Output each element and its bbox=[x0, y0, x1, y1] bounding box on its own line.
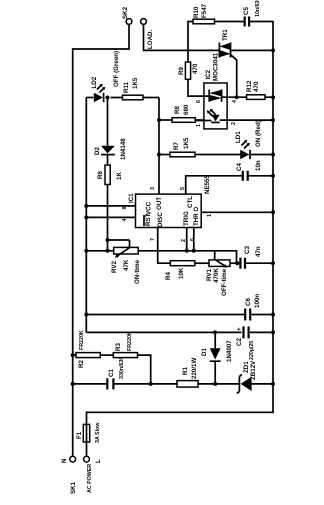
svg-text:FR220K: FR220K bbox=[79, 330, 85, 350]
svg-text:470K: 470K bbox=[213, 268, 220, 283]
svg-text:R9: R9 bbox=[178, 67, 185, 75]
svg-text:C6: C6 bbox=[245, 298, 252, 306]
svg-text:OFF-time: OFF-time bbox=[221, 268, 228, 296]
svg-text:THR O: THR O bbox=[193, 207, 200, 226]
svg-text:470: 470 bbox=[253, 81, 260, 92]
svg-text:C2: C2 bbox=[236, 338, 243, 346]
svg-text:4: 4 bbox=[122, 219, 128, 222]
svg-text:N: N bbox=[61, 458, 68, 463]
svg-text:TR1: TR1 bbox=[222, 29, 229, 41]
svg-text:RST: RST bbox=[145, 213, 152, 226]
svg-text:C3: C3 bbox=[244, 246, 251, 254]
svg-text:D1: D1 bbox=[201, 348, 208, 356]
svg-text:ZB12V: ZB12V bbox=[250, 360, 257, 380]
svg-text:R1: R1 bbox=[182, 367, 189, 375]
svg-text:ZD1: ZD1 bbox=[243, 361, 250, 373]
svg-text:R11: R11 bbox=[123, 81, 130, 93]
svg-text:+: + bbox=[236, 327, 243, 331]
svg-text:RV2: RV2 bbox=[111, 261, 118, 273]
svg-text:C5: C5 bbox=[243, 7, 250, 15]
svg-text:C1: C1 bbox=[108, 369, 115, 377]
svg-text:10K: 10K bbox=[178, 267, 185, 279]
svg-text:DISC: DISC bbox=[157, 212, 164, 227]
svg-text:OFF (Green): OFF (Green) bbox=[113, 51, 120, 87]
svg-text:F1: F1 bbox=[76, 431, 83, 439]
svg-text:LOAD.: LOAD. bbox=[147, 29, 154, 49]
svg-text:R7: R7 bbox=[173, 142, 180, 150]
svg-text:CTL: CTL bbox=[187, 196, 194, 208]
svg-text:47K: 47K bbox=[123, 259, 130, 271]
svg-text:TRIG: TRIG bbox=[183, 211, 190, 226]
svg-text:1K: 1K bbox=[116, 172, 123, 180]
svg-text:OUT: OUT bbox=[156, 197, 163, 210]
svg-text:SK1: SK1 bbox=[70, 481, 77, 494]
svg-text:680: 680 bbox=[183, 104, 190, 115]
svg-text:220/1W: 220/1W bbox=[191, 358, 198, 379]
svg-text:8: 8 bbox=[122, 207, 128, 210]
svg-text:R8: R8 bbox=[174, 106, 181, 114]
svg-text:1: 1 bbox=[196, 124, 202, 127]
svg-text:2: 2 bbox=[181, 239, 187, 242]
svg-text:7: 7 bbox=[150, 238, 156, 241]
svg-text:AC POWER: AC POWER bbox=[87, 464, 93, 493]
svg-text:1K5: 1K5 bbox=[183, 137, 190, 149]
svg-text:RV1: RV1 bbox=[206, 269, 213, 281]
svg-text:ON-time: ON-time bbox=[134, 259, 141, 284]
svg-text:L: L bbox=[95, 459, 102, 463]
svg-text:6: 6 bbox=[196, 100, 202, 103]
svg-text:NE555: NE555 bbox=[204, 175, 211, 194]
svg-text:R4: R4 bbox=[165, 272, 172, 280]
svg-text:220µ/25: 220µ/25 bbox=[249, 341, 255, 360]
svg-text:2: 2 bbox=[231, 122, 237, 125]
svg-text:470: 470 bbox=[192, 63, 199, 74]
svg-text:C4: C4 bbox=[236, 163, 243, 171]
svg-text:MOC3041: MOC3041 bbox=[213, 52, 220, 81]
svg-text:1N4148: 1N4148 bbox=[120, 138, 127, 160]
svg-text:47n: 47n bbox=[255, 246, 262, 257]
svg-text:LD2: LD2 bbox=[91, 76, 98, 88]
svg-text:10n/630: 10n/630 bbox=[255, 0, 261, 17]
svg-text:4: 4 bbox=[232, 100, 238, 103]
svg-text:R12: R12 bbox=[246, 80, 253, 92]
svg-text:LD1: LD1 bbox=[235, 131, 242, 143]
svg-text:1N4007: 1N4007 bbox=[226, 340, 233, 362]
svg-text:1: 1 bbox=[207, 214, 213, 217]
svg-text:VCC: VCC bbox=[146, 201, 153, 215]
svg-text:330n/630: 330n/630 bbox=[119, 357, 125, 379]
svg-text:R2: R2 bbox=[78, 360, 85, 368]
svg-text:IC2: IC2 bbox=[205, 69, 212, 79]
svg-text:3: 3 bbox=[150, 187, 156, 190]
svg-text:FR220K: FR220K bbox=[127, 331, 133, 351]
svg-text:F547: F547 bbox=[201, 3, 208, 18]
svg-text:ON (Red): ON (Red) bbox=[255, 120, 262, 147]
svg-text:100n: 100n bbox=[254, 294, 261, 308]
svg-text:3A Slow: 3A Slow bbox=[95, 422, 101, 443]
svg-text:R6: R6 bbox=[97, 171, 104, 179]
svg-text:5: 5 bbox=[180, 187, 186, 190]
svg-text:SK2: SK2 bbox=[122, 6, 129, 19]
svg-text:1K5: 1K5 bbox=[132, 77, 139, 89]
svg-text:10n: 10n bbox=[255, 160, 262, 171]
svg-text:R3: R3 bbox=[115, 343, 122, 351]
svg-text:IC1: IC1 bbox=[128, 193, 135, 203]
svg-text:R10: R10 bbox=[193, 6, 200, 18]
svg-text:D2: D2 bbox=[94, 147, 101, 155]
svg-text:6: 6 bbox=[190, 238, 196, 241]
